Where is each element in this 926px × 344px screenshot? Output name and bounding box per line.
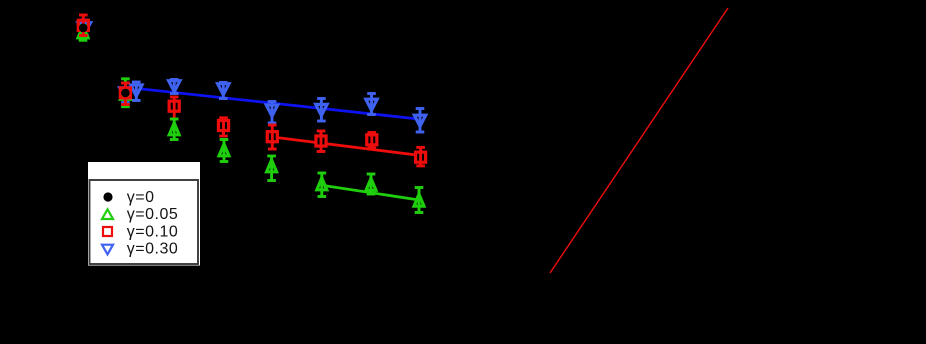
blue data point B8 (gamma=0.30) with error bar — [414, 109, 425, 133]
legend marker: red square gamma=0.10 — [103, 227, 112, 236]
blue data point B3 (gamma=0.30) with error bar — [169, 80, 180, 94]
red data point R3 (gamma=0.10) with error bar — [169, 97, 179, 119]
black data point K2 (gamma=0, cluster at x=125) — [121, 89, 130, 98]
blue data point B1 (gamma=0.30, cluster at x=83) with error bar — [78, 20, 91, 35]
legend marker: black circle gamma=0 — [103, 192, 112, 201]
legend frame — [90, 180, 199, 264]
red data point R2 (gamma=0.10, cluster at x=125) with error bar — [120, 83, 130, 105]
legend marker: green triangle gamma=0.05 — [102, 209, 113, 219]
svg-text:γ=0: γ=0 — [127, 189, 155, 206]
red fit line (gamma=0.10) — [272, 137, 420, 156]
blue data point B7 (gamma=0.30) with error bar — [366, 94, 377, 115]
blue data point B5 (gamma=0.30) with error bar — [266, 102, 277, 124]
svg-text:γ=0.05: γ=0.05 — [127, 206, 178, 223]
svg-text:γ=0.30: γ=0.30 — [127, 241, 178, 258]
blue data point B6 (gamma=0.30) with error bar — [316, 99, 327, 122]
right panel red line — [550, 8, 728, 273]
green data point G3 (gamma=0.05) with error bar — [169, 119, 179, 140]
green fit line (gamma=0.05) — [322, 185, 419, 200]
blue data point B2 (gamma=0.30) with error bar — [131, 82, 142, 101]
green data point G1 (gamma=0.05, cluster at x=83) with error bar — [78, 26, 88, 41]
black data point K1 (gamma=0, cluster at x=83) — [79, 24, 88, 33]
green data point G2 (gamma=0.05, cluster at x=125) with error bar — [120, 79, 130, 107]
green data point G7 (gamma=0.05) with error bar — [366, 174, 376, 194]
green data point G8 (gamma=0.05) with error bar — [414, 188, 424, 213]
green data point G4 (gamma=0.05) with error bar — [219, 140, 229, 162]
red data point R6 (gamma=0.10) with error bar — [316, 131, 326, 152]
svg-text:γ=0.10: γ=0.10 — [127, 223, 178, 240]
red data point R7 (gamma=0.10) with error bar — [367, 133, 377, 149]
red data point R1 (gamma=0.10, cluster at x=83) with error bar — [78, 15, 88, 36]
blue data point B1b (gamma=0.30, overlapped in cluster at x=125) with error bar — [120, 83, 131, 103]
blue fit line (gamma=0.30) — [125, 87, 419, 119]
blue data point B4 (gamma=0.30) with error bar — [218, 83, 229, 99]
legend background — [88, 162, 200, 266]
red data point R5 (gamma=0.10) with error bar — [267, 125, 277, 149]
red data point R8 (gamma=0.10) with error bar — [416, 147, 426, 166]
green data point G6 (gamma=0.05) with error bar — [317, 173, 327, 197]
green data point G5 (gamma=0.05) with error bar — [267, 156, 277, 181]
legend marker: blue inverted triangle gamma=0.30 — [102, 245, 113, 255]
red data point R4 (gamma=0.10) with error bar — [218, 118, 228, 136]
